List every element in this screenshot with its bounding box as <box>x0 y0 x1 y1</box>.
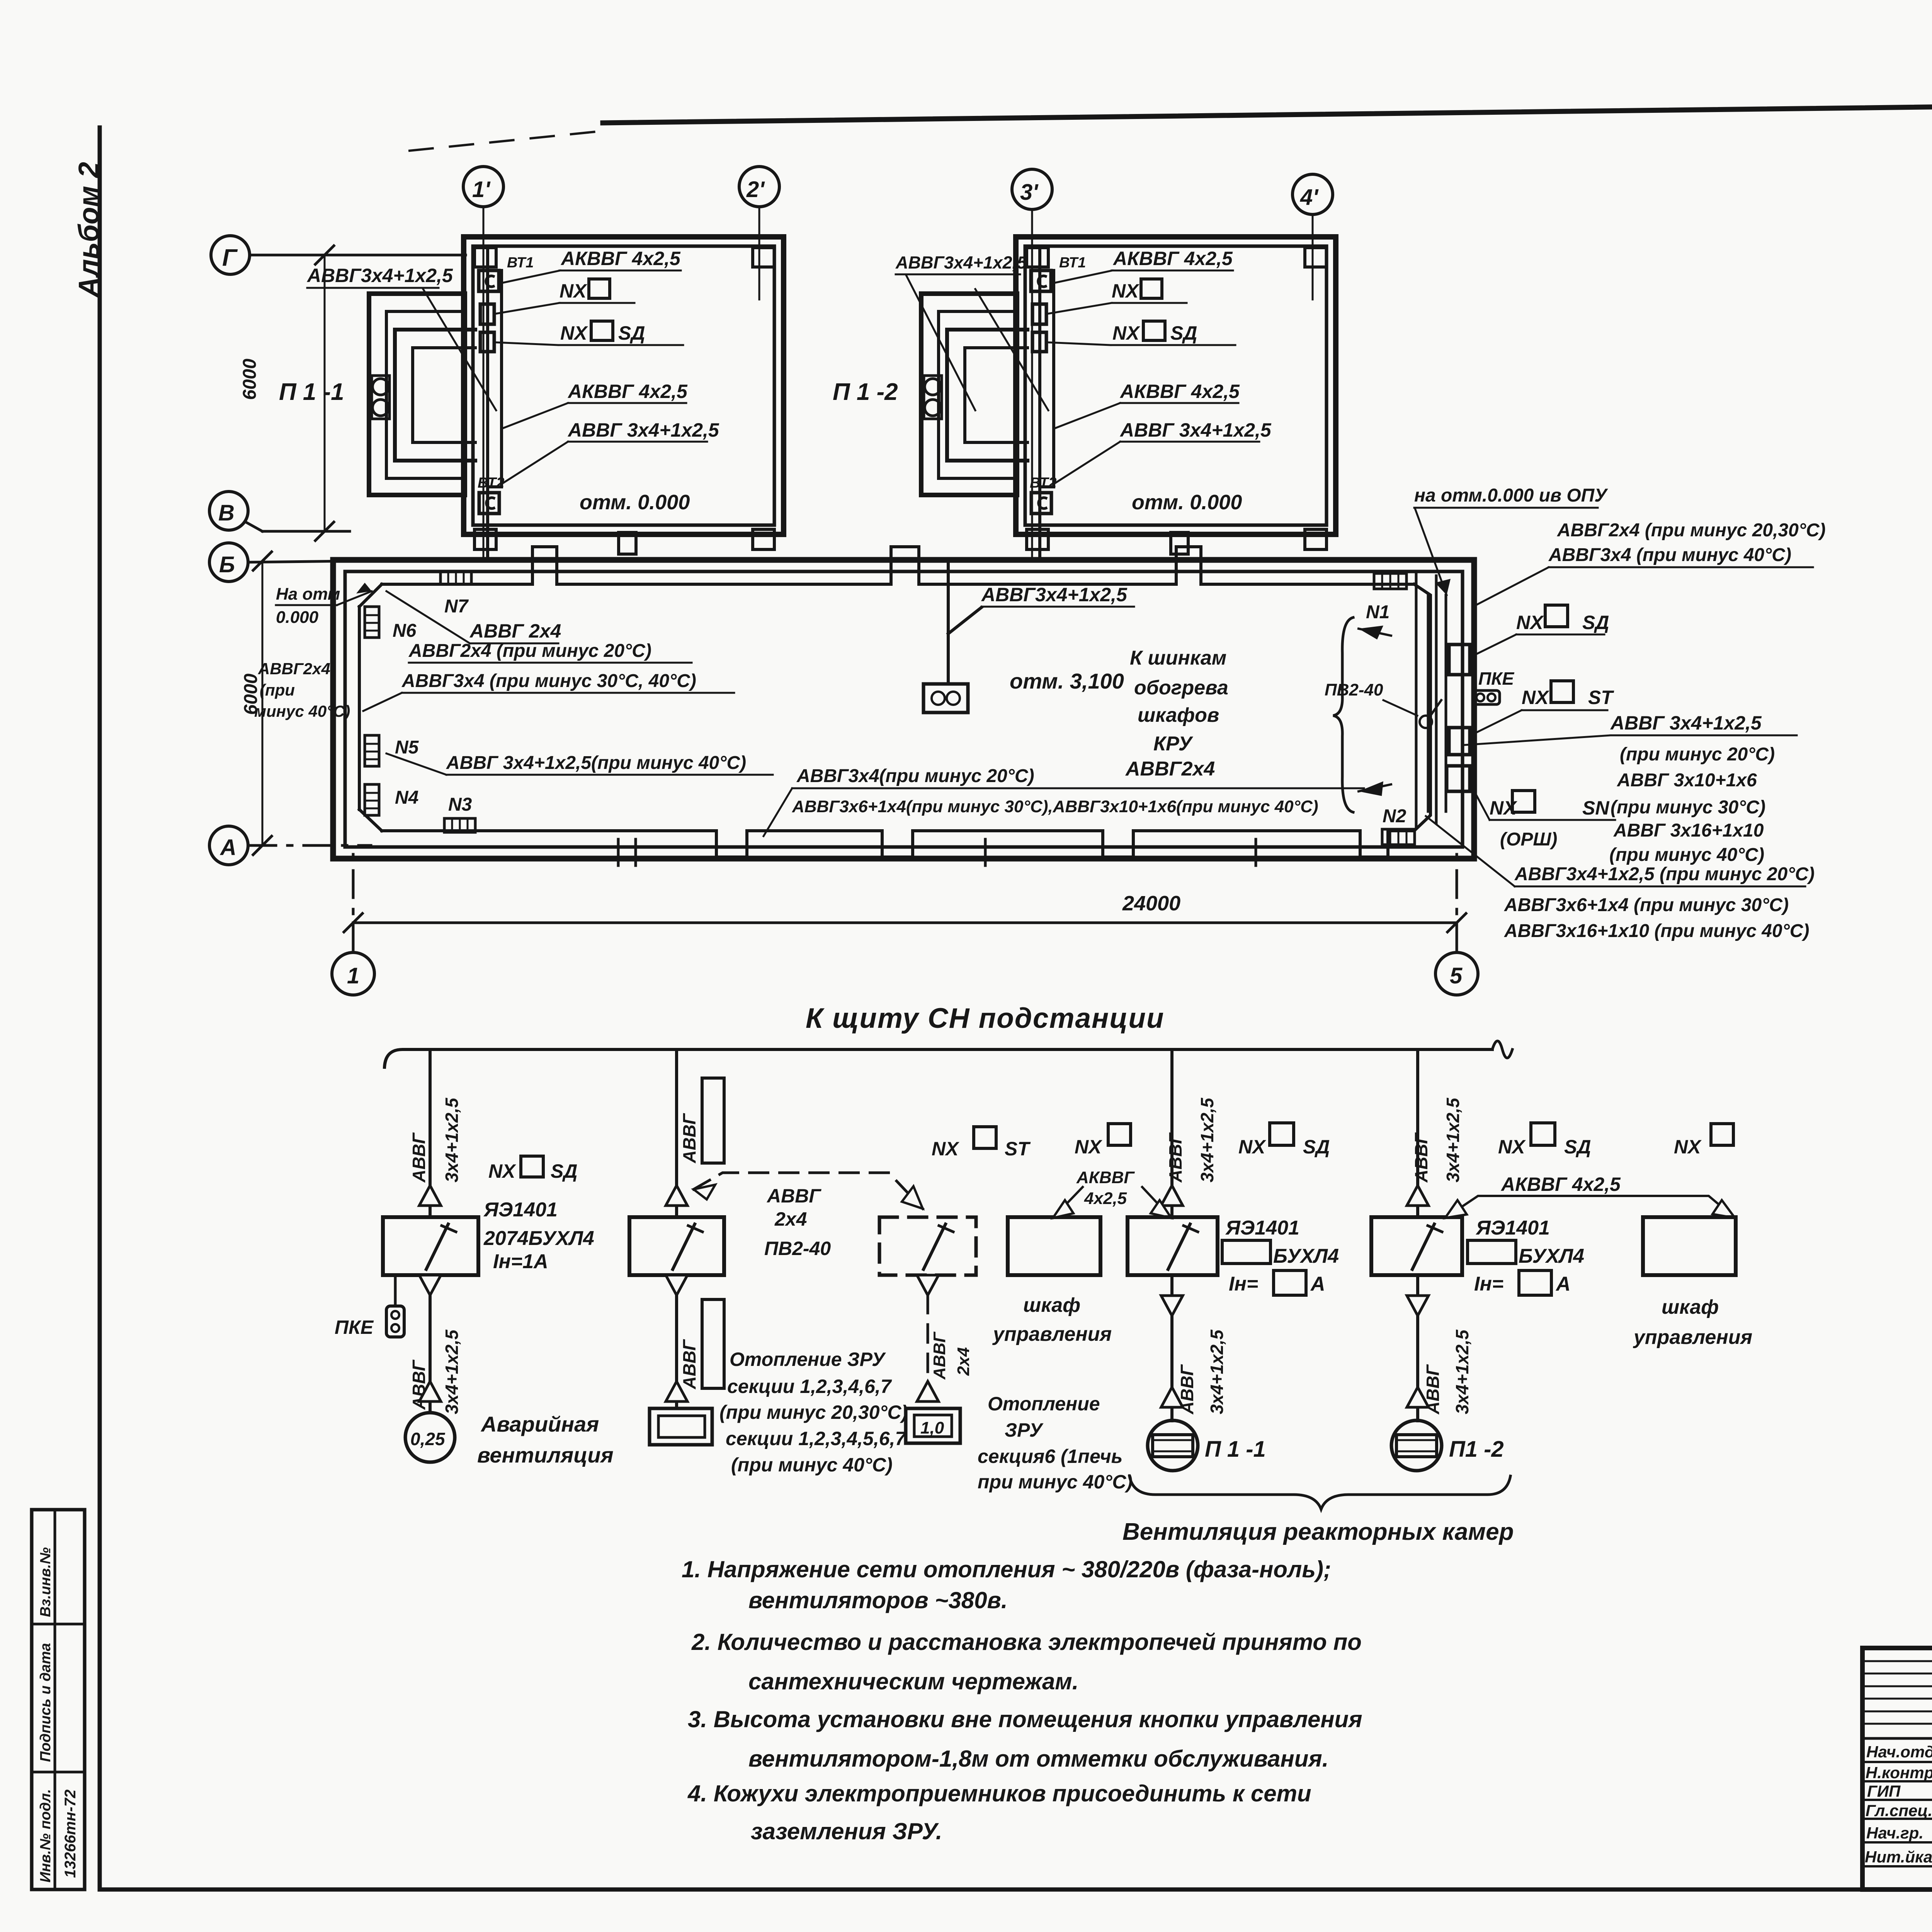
axis column 1' <box>463 167 503 558</box>
svg-text:NХ: NХ <box>1075 1136 1102 1158</box>
riser junction box upper <box>1449 645 1470 675</box>
svg-text:Подпись и дата: Подпись и дата <box>37 1643 54 1762</box>
svg-text:Аварийная: Аварийная <box>480 1412 599 1436</box>
text Отопление ЗРУ секция 6 <box>978 1393 1133 1493</box>
svg-text:Нач.гр.: Нач.гр. <box>1866 1824 1923 1842</box>
svg-text:5: 5 <box>1450 963 1463 988</box>
feeder 1 down arrow <box>419 1275 441 1412</box>
supply bus <box>384 1041 1512 1067</box>
ПКЕ push button <box>1473 690 1500 704</box>
ПВ2-40 switch symbol <box>1420 700 1441 728</box>
feeder 3 up arrow <box>1161 1185 1183 1206</box>
svg-text:Вентиляция реакторных камер: Вентиляция реакторных камер <box>1122 1519 1514 1545</box>
svg-text:3. Высота установки вне помеще: 3. Высота установки вне помещения кнопки… <box>688 1706 1362 1732</box>
text К шинкам обогрева шкафов КРУ <box>1125 647 1228 780</box>
svg-text:Iн=1А: Iн=1А <box>493 1250 548 1273</box>
label NX SД feeder 3 <box>1238 1136 1330 1158</box>
svg-text:КРУ: КРУ <box>1153 733 1194 755</box>
heater N1 arrow <box>1359 626 1391 639</box>
heater box 1,0 <box>906 1408 960 1443</box>
svg-text:NХ: NХ <box>1674 1136 1702 1158</box>
svg-text:АВВГ 3х4+1х2,5(при минус 40°С): АВВГ 3х4+1х2,5(при минус 40°С) <box>446 753 746 773</box>
svg-text:вентиляция: вентиляция <box>477 1443 614 1467</box>
svg-text:SД: SД <box>1564 1136 1591 1158</box>
axis row Г <box>211 236 466 274</box>
labels ЯЭ1401 БУХЛ4 Iн=А feeder 4 <box>1475 1217 1550 1239</box>
svg-text:АВВГ3х4 (при минус 30°С, 40°С): АВВГ3х4 (при минус 30°С, 40°С) <box>401 671 696 691</box>
feeder 4 cable label (rotated) <box>1411 1097 1463 1183</box>
svg-text:N1: N1 <box>1366 602 1389 622</box>
switch box ЯЭ1401 feeder 3 <box>1128 1217 1218 1275</box>
label NX SN <box>1490 797 1609 819</box>
column marks on bottom wall <box>618 839 1256 866</box>
svg-text:3х4+1х2,5: 3х4+1х2,5 <box>1443 1097 1463 1182</box>
svg-text:4': 4' <box>1300 185 1319 210</box>
svg-text:SТ: SТ <box>1005 1138 1031 1160</box>
svg-text:Б: Б <box>219 552 235 577</box>
svg-text:П 1 -2: П 1 -2 <box>833 379 898 405</box>
svg-text:АВВГ: АВВГ <box>679 1113 699 1163</box>
svg-text:при минус 40°С): при минус 40°С) <box>978 1471 1133 1493</box>
svg-text:(при: (при <box>260 681 295 699</box>
right cable riser channel <box>1416 572 1446 827</box>
svg-text:3х4+1х2,5: 3х4+1х2,5 <box>1197 1097 1217 1182</box>
svg-text:минус 40°С): минус 40°С) <box>254 702 350 720</box>
svg-text:3х4+1х2,5: 3х4+1х2,5 <box>1207 1329 1227 1414</box>
feeder 2 cable marker box lower <box>702 1299 724 1388</box>
svg-text:Iн=: Iн= <box>1474 1273 1503 1295</box>
svg-text:ЯЭ1401: ЯЭ1401 <box>1225 1217 1299 1239</box>
svg-text:АВВГ: АВВГ <box>409 1132 429 1183</box>
svg-text:АВВГ3х6+1х4 (при минус 30°С): АВВГ3х6+1х4 (при минус 30°С) <box>1504 895 1789 915</box>
svg-text:2. Количество и расстановка эл: 2. Количество и расстановка электропечей… <box>691 1629 1362 1655</box>
svg-text:секция6 (1печь: секция6 (1печь <box>978 1446 1122 1467</box>
svg-text:(ОРШ): (ОРШ) <box>1500 829 1557 850</box>
svg-text:1: 1 <box>347 963 359 988</box>
label АВВГ2х4 (при минус 20,30) <box>1557 520 1826 541</box>
svg-text:(при минус 40°С): (при минус 40°С) <box>731 1454 893 1476</box>
label NX ST (schematic) <box>932 1138 1031 1160</box>
label ОРШ <box>1500 829 1557 850</box>
svg-text:АВВГ3х4+1х2,5 (при минус 20°С): АВВГ3х4+1х2,5 (при минус 20°С) <box>1514 864 1815 884</box>
svg-text:Инв.№ подл.: Инв.№ подл. <box>37 1789 54 1883</box>
svg-text:шкаф: шкаф <box>1023 1294 1080 1316</box>
control cabinet box П1-2 <box>1643 1217 1736 1275</box>
riser junction box lower <box>1447 766 1470 791</box>
heater box feeder 2 <box>650 1408 712 1445</box>
title block outer <box>1862 1648 1932 1889</box>
svg-text:Нач.отд.: Нач.отд. <box>1866 1743 1932 1761</box>
label NX (schematic, left of feeder 3) <box>1075 1136 1102 1158</box>
label ПВ2-40 <box>1325 680 1383 699</box>
svg-text:ГИП: ГИП <box>1867 1782 1901 1800</box>
svg-text:(при минус 40°С): (при минус 40°С) <box>1609 845 1764 865</box>
album label (rotated) <box>73 162 105 298</box>
svg-text:На отм: На отм <box>276 585 340 604</box>
ceiling fan box with feeder <box>923 561 981 713</box>
feeder 2 riser <box>675 1049 678 1217</box>
feeder 1 cable label (rotated) <box>409 1097 462 1183</box>
svg-text:ПВ2-40: ПВ2-40 <box>1325 680 1383 699</box>
tie to cabinet АКВВГ 4х2,5 <box>1053 1187 1171 1218</box>
label АВВГ3х16+1х10 (при минус 40) <box>1504 921 1809 941</box>
heater N3 on bottom wall <box>444 818 475 832</box>
brace grouping N1 N2 cables <box>1333 617 1353 812</box>
svg-text:ЯЭ1401: ЯЭ1401 <box>483 1199 558 1221</box>
svg-text:АВВГ2х4: АВВГ2х4 <box>258 660 330 678</box>
svg-text:0,25: 0,25 <box>410 1429 446 1449</box>
label АВВГ2х4 при минус 20 <box>408 641 651 661</box>
svg-text:А: А <box>1555 1273 1571 1295</box>
svg-text:N7: N7 <box>444 596 469 617</box>
axis row А <box>209 826 371 865</box>
feeder 4 riser <box>1416 1049 1419 1217</box>
svg-text:шкаф: шкаф <box>1662 1296 1719 1318</box>
cable doorway loops bottom wall <box>716 831 1388 857</box>
svg-text:3х4+1х2,5: 3х4+1х2,5 <box>442 1097 462 1182</box>
svg-text:SД: SД <box>551 1160 577 1182</box>
axis row Б <box>209 543 350 582</box>
svg-text:А: А <box>219 835 236 860</box>
axis row В <box>209 492 350 531</box>
control cabinet box П1-1 <box>1008 1217 1100 1275</box>
heater N6 on left wall <box>365 607 379 638</box>
label АВВГ3х4 при минус 30,40 <box>401 671 696 691</box>
feeder 4 down arrow and drop <box>1407 1275 1429 1421</box>
label На отм 0.000 left <box>276 585 340 627</box>
svg-text:АВВГ 3х10+1х6: АВВГ 3х10+1х6 <box>1617 770 1757 791</box>
svg-text:ПКЕ: ПКЕ <box>1478 668 1514 689</box>
emergency fan circle 0,25 <box>405 1413 455 1462</box>
svg-text:2х4: 2х4 <box>954 1347 973 1376</box>
svg-text:N6: N6 <box>393 621 417 641</box>
axis column 2' <box>739 167 779 299</box>
svg-text:АВВГ: АВВГ <box>1411 1132 1431 1183</box>
svg-text:NХ: NХ <box>1498 1136 1526 1158</box>
svg-text:секции 1,2,3,4,6,7: секции 1,2,3,4,6,7 <box>727 1376 892 1397</box>
feeder 1 cable label below (rotated) <box>409 1329 462 1414</box>
svg-text:2074БУХЛ4: 2074БУХЛ4 <box>483 1227 594 1250</box>
svg-text:13266тн-72: 13266тн-72 <box>62 1789 79 1878</box>
feeder 4 cable label below (rotated) <box>1423 1329 1472 1415</box>
heater N2 arrow <box>1359 781 1391 796</box>
riser junction box middle <box>1449 728 1470 755</box>
axis column 5 (bottom) <box>1435 848 1478 995</box>
svg-text:24000: 24000 <box>1122 892 1180 915</box>
axis column 4' <box>1293 174 1333 299</box>
svg-text:0.000: 0.000 <box>276 608 319 627</box>
svg-text:6000: 6000 <box>240 359 260 400</box>
feeder 3 down arrow and drop <box>1161 1275 1183 1421</box>
svg-text:SД: SД <box>1582 612 1609 633</box>
svg-text:Гл.спец.: Гл.спец. <box>1866 1801 1932 1820</box>
svg-text:N2: N2 <box>1383 806 1406 827</box>
svg-text:БУХЛ4: БУХЛ4 <box>1519 1245 1584 1267</box>
perimeter heating cable run <box>359 584 1430 831</box>
label шкаф управления П1-2 <box>1633 1296 1752 1349</box>
main hall outer wall <box>333 560 1474 859</box>
switch box ЯЭ1401 feeder 1 <box>383 1217 478 1275</box>
svg-text:АКВВГ: АКВВГ <box>1076 1168 1135 1187</box>
svg-text:SТ: SТ <box>1588 687 1614 708</box>
svg-text:сантехническим чертежам.: сантехническим чертежам. <box>748 1668 1078 1694</box>
label шкаф управления П1-1 <box>992 1294 1112 1345</box>
svg-text:NХ: NХ <box>488 1160 516 1182</box>
svg-text:Н.контр.: Н.контр. <box>1866 1764 1932 1782</box>
label АВВГ 3х4+1х2,5 right block <box>1610 712 1762 734</box>
svg-text:АВВГ: АВВГ <box>930 1332 949 1380</box>
brace Вентиляция реакторных камер <box>1129 1476 1510 1509</box>
svg-text:1,0: 1,0 <box>920 1418 944 1437</box>
inventory stamp labels <box>37 1547 79 1883</box>
notes <box>682 1556 1362 1844</box>
signature rows text <box>1865 1743 1932 1866</box>
svg-text:3х4+1х2,5: 3х4+1х2,5 <box>442 1329 462 1414</box>
svg-text:ЯЭ1401: ЯЭ1401 <box>1475 1217 1550 1239</box>
feeder 2 up arrow <box>666 1185 687 1206</box>
cable label АВВГ3х4+1х2,5 unit 2 <box>895 253 1027 272</box>
svg-text:ПКЕ: ПКЕ <box>335 1316 374 1338</box>
label АВВГ3х4+1х2,5 (при минус 20) bottom right <box>1514 864 1815 884</box>
heater N5 on left wall <box>365 735 379 766</box>
svg-text:вентиляторов ~380в.: вентиляторов ~380в. <box>748 1587 1008 1613</box>
svg-text:секции 1,2,3,4,5,6,7: секции 1,2,3,4,5,6,7 <box>726 1428 906 1449</box>
svg-text:АКВВГ 4х2,5: АКВВГ 4х2,5 <box>1500 1173 1621 1195</box>
svg-text:Нит.йкат: Нит.йкат <box>1865 1848 1932 1866</box>
svg-text:NХ: NХ <box>1516 612 1544 633</box>
reserve switch box (dashed) <box>879 1217 976 1275</box>
svg-text:АВВГ: АВВГ <box>1177 1364 1197 1415</box>
svg-text:управления: управления <box>992 1323 1112 1345</box>
svg-text:на отм.0.000 ив ОПУ: на отм.0.000 ив ОПУ <box>1414 485 1608 506</box>
label АВВГ 3х4+1х2,5 при минус 40 <box>446 753 746 773</box>
vertical dimension line with 6000 marks (lower) <box>253 552 272 855</box>
svg-text:вентилятором-1,8м от отметки: вентилятором-1,8м от отметки обслуживани… <box>748 1746 1328 1772</box>
switch box ЯЭ1401 feeder 4 <box>1371 1217 1462 1275</box>
label NX SД feeder 4 <box>1498 1136 1591 1158</box>
svg-text:4. Кожухи электроприемников пр: 4. Кожухи электроприемников присоединить… <box>687 1781 1311 1806</box>
label АВВГ 2х4 <box>469 620 561 642</box>
svg-text:заземления ЗРУ.: заземления ЗРУ. <box>751 1818 942 1844</box>
svg-text:(при минус 20,30°С): (при минус 20,30°С) <box>719 1401 908 1423</box>
feeder 3 cable label (rotated) <box>1165 1097 1217 1183</box>
svg-text:АВВГ 3х4+1х2,5: АВВГ 3х4+1х2,5 <box>1610 712 1762 734</box>
label АВВГ3х6+1х4 ... bottom run <box>792 797 1318 816</box>
label АВВГ3х4 при минус 20 (bottom run) <box>796 766 1034 786</box>
label NX far right <box>1674 1136 1702 1158</box>
svg-text:(при минус 30°С): (при минус 30°С) <box>1611 797 1765 818</box>
svg-text:3х4+1х2,5: 3х4+1х2,5 <box>1452 1329 1472 1414</box>
svg-text:управления: управления <box>1633 1326 1752 1349</box>
labels ЯЭ1401 БУХЛ4 Iн=А feeder 3 <box>1225 1217 1299 1239</box>
svg-text:В: В <box>218 500 235 526</box>
feeder 3 riser <box>1170 1049 1173 1217</box>
heater near N1 <box>1374 573 1406 589</box>
reserve down arrow + dashed drop <box>917 1275 939 1408</box>
label Аварийная вентиляция <box>477 1412 614 1467</box>
svg-text:2': 2' <box>746 177 765 202</box>
ventilation unit П1-1 plan <box>369 237 784 558</box>
svg-text:АВВГ3х4+1х2,5: АВВГ3х4+1х2,5 <box>895 253 1027 272</box>
svg-text:N5: N5 <box>395 737 419 758</box>
dimension line 24000 <box>344 913 1466 932</box>
ventilation unit П1-2 plan <box>921 237 1336 558</box>
svg-text:АВВГ: АВВГ <box>766 1185 821 1207</box>
inventory stamp block <box>32 1510 85 1889</box>
axis column 1 (bottom) <box>332 848 374 995</box>
svg-text:1': 1' <box>472 177 491 202</box>
svg-text:NХ: NХ <box>932 1138 959 1160</box>
svg-text:3': 3' <box>1020 180 1039 205</box>
label NX SД right <box>1516 612 1609 633</box>
schematic title К щиту СН подстанции <box>806 1003 1165 1034</box>
feeder 4 up arrow <box>1407 1185 1429 1206</box>
svg-text:П1 -2: П1 -2 <box>1449 1437 1504 1462</box>
label ЯЭ1401 2074БУХЛ4 Iн=1А <box>483 1199 594 1273</box>
svg-text:АВВГ2х4: АВВГ2х4 <box>1125 758 1215 780</box>
vertical dimension line with 6000 marks (upper) <box>315 246 334 541</box>
svg-text:Iн=: Iн= <box>1229 1273 1258 1295</box>
svg-text:АВВГ 3х16+1х10: АВВГ 3х16+1х10 <box>1613 820 1764 841</box>
svg-text:Отопление ЗРУ: Отопление ЗРУ <box>730 1349 886 1370</box>
svg-text:П 1 -1: П 1 -1 <box>279 379 344 405</box>
svg-text:Альбом 2: Альбом 2 <box>73 162 105 298</box>
svg-text:шкафов: шкафов <box>1138 704 1219 726</box>
svg-text:П 1 -1: П 1 -1 <box>1205 1437 1266 1462</box>
cable label АВВГ3х4+1х2,5 unit 1 <box>306 265 453 286</box>
svg-text:SN: SN <box>1582 797 1609 819</box>
svg-text:N3: N3 <box>448 794 472 815</box>
feeder 1 riser <box>429 1049 432 1217</box>
label АВВГ3х4+1х2,5 (fan feeder) <box>981 584 1128 605</box>
svg-text:К шинкам: К шинкам <box>1130 647 1226 669</box>
ПКЕ branch <box>386 1275 404 1337</box>
sheet frame left border <box>98 128 102 1889</box>
svg-text:АВВГ3х16+1х10 (при минус 40°С): АВВГ3х16+1х10 (при минус 40°С) <box>1504 921 1809 941</box>
svg-text:Г: Г <box>222 245 238 271</box>
sheet frame top border <box>410 97 1932 151</box>
svg-text:2х4: 2х4 <box>774 1208 807 1230</box>
svg-text:1. Напряжение сети отопления ~: 1. Напряжение сети отопления ~ 380/220в … <box>682 1556 1331 1582</box>
label П 1 -1 <box>279 379 344 405</box>
svg-text:NХ: NХ <box>1238 1136 1266 1158</box>
svg-text:АВВГ3х4(при минус 20°С): АВВГ3х4(при минус 20°С) <box>796 766 1034 786</box>
svg-text:SД: SД <box>1303 1136 1330 1158</box>
heater N2 resistor <box>1382 829 1415 845</box>
svg-text:N4: N4 <box>395 787 418 808</box>
svg-text:АВВГ3х4 (при минус 40°С): АВВГ3х4 (при минус 40°С) <box>1548 545 1791 565</box>
svg-text:отм. 3,100: отм. 3,100 <box>1010 669 1124 693</box>
heater N4 on left wall <box>365 784 379 815</box>
title block signature grid <box>1862 1648 1932 1889</box>
svg-text:ЗРУ: ЗРУ <box>1005 1419 1044 1441</box>
rotated label АВВГ 2х4 dashed drop <box>930 1332 973 1380</box>
svg-text:АВВГ: АВВГ <box>1165 1132 1185 1183</box>
svg-text:Вз.инв.№: Вз.инв.№ <box>37 1547 54 1617</box>
label NX SД feeder 1 <box>488 1160 577 1182</box>
feeder 2 lower arrow <box>666 1381 687 1401</box>
label NX ST right <box>1522 687 1614 708</box>
svg-text:АВВГ3х6+1х4(при минус 30°С),АВ: АВВГ3х6+1х4(при минус 30°С),АВВГ3х10+1х6… <box>792 797 1318 816</box>
svg-text:АВВГ2х4 (при минус 20,30°С): АВВГ2х4 (при минус 20,30°С) <box>1557 520 1826 541</box>
labels АВВГ 2х4 / ПВ2-40 <box>764 1185 831 1259</box>
text Отопление ЗРУ секции <box>719 1349 908 1476</box>
svg-text:АВВГ3х4+1х2,5: АВВГ3х4+1х2,5 <box>981 584 1128 605</box>
dashed tie line to reserve switch <box>694 1173 923 1209</box>
svg-text:(при минус 20°С): (при минус 20°С) <box>1620 744 1775 765</box>
label АВВГ3х4 (при минус 40) <box>1548 545 1791 565</box>
feeder 1 up arrow <box>419 1185 441 1206</box>
svg-text:ПВ2-40: ПВ2-40 <box>764 1238 831 1259</box>
svg-text:К щиту СН подстанции: К щиту СН подстанции <box>806 1003 1165 1034</box>
svg-text:А: А <box>1310 1273 1325 1295</box>
feeder 3 cable label below (rotated) <box>1177 1329 1227 1415</box>
svg-text:АВВГ 2х4: АВВГ 2х4 <box>469 620 561 642</box>
heater N7 on top wall <box>440 571 471 584</box>
cable doorway loops top wall <box>532 547 1201 584</box>
fan П1-1 <box>1148 1420 1198 1471</box>
label АВВГ3х6+1х4 (при минус 30) <box>1504 895 1789 915</box>
feeder 2 cable marker box upper <box>702 1078 724 1163</box>
svg-text:АВВГ3х4+1х2,5: АВВГ3х4+1х2,5 <box>306 265 453 286</box>
label на отм.0.000 ив ОПУ <box>1414 485 1608 506</box>
main hall inner wall line <box>345 571 1463 847</box>
svg-text:4х2,5: 4х2,5 <box>1084 1189 1127 1208</box>
svg-text:АВВГ: АВВГ <box>1423 1364 1443 1415</box>
feeder 2 down arrow <box>666 1275 687 1408</box>
svg-text:АВВГ2х4 (при минус 20°С): АВВГ2х4 (при минус 20°С) <box>408 641 651 661</box>
tie to right cabinet АКВВГ 4х2,5 <box>1445 1196 1735 1218</box>
svg-text:БУХЛ4: БУХЛ4 <box>1273 1245 1339 1267</box>
fan П1-2 <box>1391 1420 1442 1471</box>
svg-text:АВВГ: АВВГ <box>679 1339 699 1389</box>
switch box ПВ2-40 <box>629 1217 724 1275</box>
label отм 3,100 <box>1010 669 1124 693</box>
svg-text:обогрева: обогрева <box>1134 677 1228 699</box>
svg-text:Отопление: Отопление <box>988 1393 1100 1415</box>
left outside label АВВГ2х4 при минус 40 <box>254 660 350 720</box>
feeder 1 lower arrow <box>419 1381 441 1401</box>
label П 1 -2 <box>833 379 898 405</box>
sheet frame bottom border <box>100 1888 1932 1892</box>
axis column 3' <box>1012 169 1052 558</box>
svg-text:NХ: NХ <box>1522 687 1549 708</box>
